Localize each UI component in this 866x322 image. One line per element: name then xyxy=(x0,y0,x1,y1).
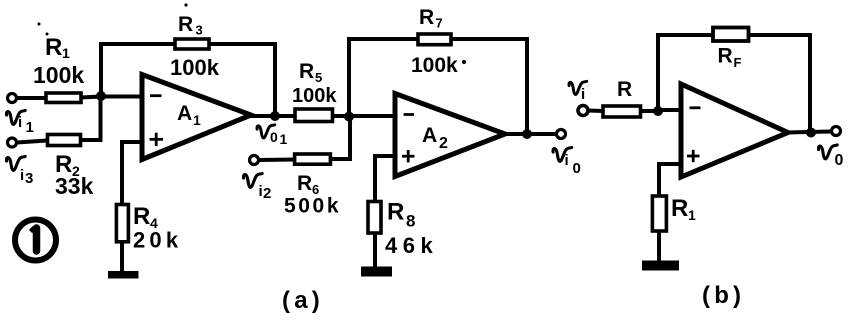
label R6 xyxy=(297,172,319,197)
svg-text:(a): (a) xyxy=(282,287,324,314)
wire (A3 plus input) xyxy=(659,164,681,196)
label v01 xyxy=(257,125,288,147)
label vi1 xyxy=(7,110,34,136)
label R3 xyxy=(178,13,203,38)
svg-text:500k: 500k xyxy=(284,195,341,218)
resistor R3 xyxy=(175,39,209,49)
resistor R6 xyxy=(295,154,331,164)
wire xyxy=(656,35,660,111)
svg-text:0: 0 xyxy=(270,129,278,145)
label v0 (b) xyxy=(819,145,844,169)
svg-text:5: 5 xyxy=(315,70,322,85)
svg-text:R: R xyxy=(387,199,404,226)
label A1 xyxy=(177,102,201,128)
resistor R5 xyxy=(295,109,333,122)
wire xyxy=(451,37,527,41)
svg-text:R: R xyxy=(299,60,314,83)
wire (A1 minus input) xyxy=(101,95,142,99)
wire xyxy=(373,233,377,268)
pin minus (A2) xyxy=(404,113,414,116)
wire xyxy=(330,117,350,160)
wire (A3 output) xyxy=(786,132,831,133)
label R7 xyxy=(419,6,443,31)
pin plus (A1) xyxy=(150,133,164,146)
svg-text:1: 1 xyxy=(62,45,70,61)
resistor R2 xyxy=(48,135,81,146)
wire xyxy=(347,39,351,116)
svg-text:2: 2 xyxy=(263,185,271,202)
label R5 xyxy=(299,60,322,85)
svg-text:0: 0 xyxy=(835,152,844,169)
terminal v0 (b) xyxy=(832,127,841,136)
terminal vi (b) xyxy=(578,106,588,116)
svg-text:(b): (b) xyxy=(702,282,745,309)
wire (A1 output) xyxy=(248,114,295,118)
resistor R4 xyxy=(116,205,128,242)
svg-text:3: 3 xyxy=(196,23,203,38)
speck artifact xyxy=(462,60,466,64)
speck artifact xyxy=(38,23,41,26)
wire xyxy=(81,97,101,98)
resistor R1 xyxy=(46,93,81,103)
wire xyxy=(17,141,47,143)
label R1 xyxy=(45,34,70,61)
terminal vi1 xyxy=(8,94,17,103)
wire xyxy=(81,97,101,141)
label R8 xyxy=(387,199,415,231)
speck artifact xyxy=(184,3,187,6)
wire xyxy=(259,158,295,163)
svg-text:8: 8 xyxy=(406,212,415,231)
label R4 xyxy=(133,203,158,231)
svg-text:46k: 46k xyxy=(385,233,438,258)
svg-text:R: R xyxy=(419,6,434,29)
resistor RF xyxy=(713,28,749,42)
node E (A3 output junction) xyxy=(806,128,816,138)
label R2 xyxy=(55,151,80,179)
wire xyxy=(657,231,661,262)
ground (below R4) xyxy=(108,271,139,279)
svg-text:100k: 100k xyxy=(292,85,337,107)
node C (A2 output junction) xyxy=(522,129,532,139)
wire xyxy=(525,37,529,134)
node A (junction R1/R2/R3/A1-) xyxy=(96,91,106,101)
wire (A2 output) xyxy=(503,132,556,136)
svg-text:i: i xyxy=(581,86,585,103)
wire (A3 minus input) xyxy=(658,108,681,112)
svg-text:0: 0 xyxy=(573,160,581,177)
label A2 xyxy=(422,124,448,152)
svg-text:20k: 20k xyxy=(133,228,182,253)
label R1 (b) xyxy=(671,195,696,223)
wire (A1 plus input) xyxy=(122,142,142,205)
pin minus (A1) xyxy=(150,94,162,97)
wire (A2 plus input) xyxy=(375,156,395,202)
pin plus (A3) xyxy=(687,150,700,162)
wire xyxy=(656,33,713,37)
ground (below R1 b) xyxy=(642,261,679,271)
resistor R1 (b) xyxy=(652,196,666,231)
svg-text:2: 2 xyxy=(439,135,448,152)
label vi2 xyxy=(244,173,272,202)
svg-text:A: A xyxy=(422,124,437,147)
wire xyxy=(808,33,812,133)
svg-text:A: A xyxy=(177,102,192,125)
wire xyxy=(99,42,175,46)
node D (junction R/RF/A3-) xyxy=(653,106,663,116)
wire xyxy=(273,42,277,116)
svg-text:1: 1 xyxy=(193,112,201,128)
svg-text:1: 1 xyxy=(280,131,288,147)
figure mark circled 1 xyxy=(15,220,56,261)
svg-text:R: R xyxy=(671,195,688,222)
op-amp A1 xyxy=(142,75,251,160)
pin minus (A3) xyxy=(690,106,701,109)
svg-text:1: 1 xyxy=(688,207,696,223)
wire xyxy=(588,109,603,114)
svg-text:F: F xyxy=(734,55,742,70)
svg-text:100k: 100k xyxy=(170,55,220,80)
resistor R (b) xyxy=(603,106,641,117)
wire xyxy=(17,96,46,100)
terminal vi0 xyxy=(557,130,566,139)
wire xyxy=(347,37,418,41)
label vi3 xyxy=(7,156,34,187)
svg-text:33k: 33k xyxy=(55,173,94,199)
wire xyxy=(641,109,659,113)
svg-text:R: R xyxy=(617,78,632,101)
svg-text:i: i xyxy=(565,152,569,169)
svg-text:R: R xyxy=(45,34,62,61)
svg-text:100k: 100k xyxy=(33,62,84,88)
svg-text:1: 1 xyxy=(26,119,34,136)
svg-text:i: i xyxy=(20,167,24,184)
svg-text:R: R xyxy=(133,203,150,230)
wire xyxy=(333,114,396,118)
op-amp A3 (part b) xyxy=(681,84,788,177)
terminal vi3 xyxy=(8,138,17,147)
node B (junction R5/R6/R7/A2-) xyxy=(344,112,354,122)
pin plus (A2) xyxy=(402,150,415,162)
wire xyxy=(99,44,103,96)
speck artifact xyxy=(46,33,49,36)
label RF xyxy=(718,45,742,71)
svg-text:i: i xyxy=(18,114,22,131)
node v01 xyxy=(270,111,280,121)
svg-text:7: 7 xyxy=(436,16,443,31)
terminal vi2 xyxy=(250,156,259,165)
label vi0 xyxy=(553,147,581,177)
wire xyxy=(749,33,811,37)
svg-text:3: 3 xyxy=(25,170,33,187)
wire xyxy=(209,42,275,46)
svg-text:R: R xyxy=(297,172,312,195)
op-amp A2 xyxy=(395,94,505,177)
svg-text:100k: 100k xyxy=(411,54,458,77)
svg-text:R: R xyxy=(178,13,193,36)
ground (below R8) xyxy=(361,267,392,277)
resistor R7 xyxy=(418,34,451,45)
svg-text:R: R xyxy=(718,45,733,68)
label vi (b) xyxy=(569,81,587,103)
wire xyxy=(120,242,124,271)
resistor R8 xyxy=(368,202,381,234)
